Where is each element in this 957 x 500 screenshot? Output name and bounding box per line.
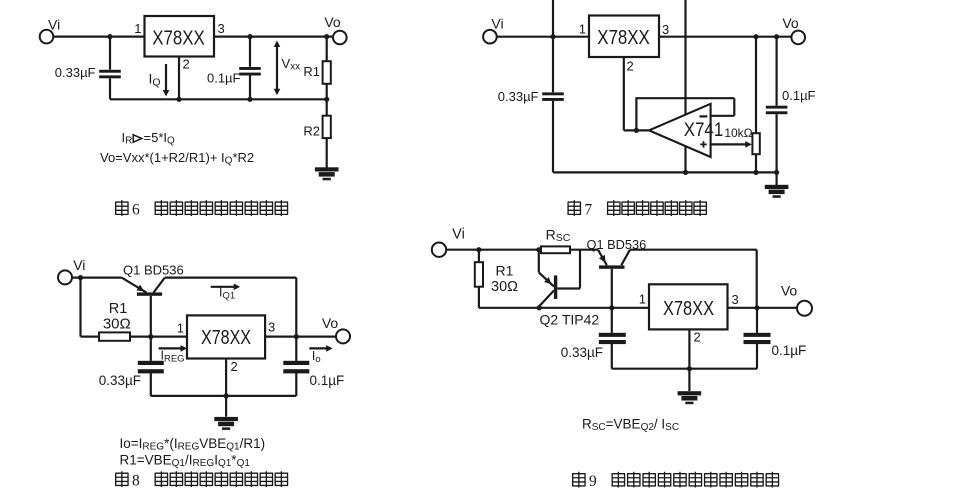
junction pin2/rail — [224, 393, 229, 398]
svg-text:2: 2 — [231, 359, 238, 374]
junction base/C5 — [148, 334, 153, 339]
wire Q1 collector to output bus — [165, 277, 296, 279]
wire C5 top lead — [150, 337, 152, 361]
feedback wire top — [636, 97, 734, 99]
junction pin2/rail — [687, 366, 692, 371]
wire C4 top lead — [775, 37, 777, 106]
junction input/C1 — [107, 34, 112, 39]
node Vi (fig7 input terminal) — [483, 30, 497, 44]
wire non-inverting input to pot wiper — [711, 143, 746, 145]
svg-text:3: 3 — [268, 320, 275, 335]
current arrow IQ1 — [211, 286, 235, 288]
wire Q1 collector to right bus — [630, 249, 757, 251]
svg-text:R2: R2 — [303, 124, 320, 139]
svg-text:Vi: Vi — [491, 16, 503, 32]
regulator U1 X78XX — [145, 16, 215, 57]
wire Vi to U2 pin1 — [497, 36, 589, 38]
wire right bus vertical — [756, 250, 758, 308]
wire rail to ground — [775, 172, 777, 185]
wire U1 pin2 to ground rail — [178, 57, 180, 100]
wire Vi to Q1 emitter — [72, 277, 122, 279]
svg-text:0.33µF: 0.33µF — [498, 89, 539, 104]
regulator U5 X78XX — [649, 284, 728, 329]
wire R1 to U4 pin1 — [130, 336, 187, 338]
wire C6 bottom lead — [295, 373, 297, 396]
svg-text:0.33µF: 0.33µF — [561, 345, 603, 360]
ground rail fig9 — [612, 368, 757, 370]
svg-text:1: 1 — [177, 321, 184, 336]
regulator U4 X78XX — [187, 315, 265, 358]
wire U5 pin3 to Vo — [728, 307, 798, 309]
resistor R2 — [323, 116, 331, 138]
svg-text:X78XX: X78XX — [597, 27, 650, 49]
svg-text:Vo: Vo — [324, 14, 341, 30]
wire output bus vertical — [295, 278, 297, 337]
svg-text:R1: R1 — [109, 301, 128, 317]
wire Q1 base down — [150, 296, 152, 337]
feedback wire right vertical — [733, 98, 735, 116]
transistor Q1 base bar fig9 — [599, 265, 625, 268]
wire C1 bottom lead — [109, 78, 111, 99]
junction right bus/output — [754, 305, 759, 310]
ground rail fig8 — [151, 395, 296, 397]
svg-text:2: 2 — [627, 59, 634, 74]
current arrow Io — [309, 347, 327, 349]
svg-text:0.33µF: 0.33µF — [55, 65, 96, 80]
svg-text:2: 2 — [694, 330, 701, 345]
wire pot top lead — [755, 37, 757, 134]
wire C8 top lead — [756, 308, 758, 333]
capacitor C8 0.1uF — [744, 333, 771, 337]
svg-text:1: 1 — [579, 22, 586, 37]
transistor Q1 emitter fig9 — [598, 250, 607, 266]
wire Q1 base down — [611, 269, 613, 308]
wire C7 bottom lead — [611, 344, 613, 369]
wire R1 top lead — [478, 250, 480, 263]
svg-text:3: 3 — [218, 21, 225, 36]
ground rail fig7 — [553, 171, 777, 173]
wire C1 top lead — [109, 37, 111, 70]
wire Vi to Rsc — [446, 249, 541, 251]
junction output bus/rail — [683, 170, 688, 175]
wire left to R1 — [81, 336, 100, 338]
svg-text:10kΩ: 10kΩ — [724, 126, 752, 140]
svg-text:Q2 TIP42: Q2 TIP42 — [540, 311, 600, 327]
transistor Q1 BD536 emitter — [122, 278, 147, 293]
junction output bus/output — [294, 334, 299, 339]
svg-text:X78XX: X78XX — [663, 297, 714, 320]
ground symbol fig8 — [214, 417, 238, 430]
junction output/C2 — [247, 34, 252, 39]
transistor Q2 base bar — [554, 275, 557, 299]
node Vi (fig8 input terminal) — [58, 270, 72, 284]
svg-text:9: 9 — [589, 473, 597, 490]
wire Vi to U1 pin1 — [53, 35, 144, 37]
junction pin2/rail — [176, 97, 181, 102]
svg-text:Vo: Vo — [782, 15, 799, 31]
junction output/C4 — [774, 34, 779, 39]
svg-text:30Ω: 30Ω — [103, 315, 131, 332]
wire pot bottom lead — [755, 154, 757, 172]
capacitor C1 0.33uF — [99, 70, 121, 73]
junction feedback/output — [634, 128, 639, 133]
svg-text:0.33µF: 0.33µF — [99, 373, 141, 388]
wire R1 bottom lead — [478, 287, 480, 308]
wire C4 bottom lead — [775, 114, 777, 172]
ground rail fig6 — [110, 98, 327, 100]
node Vi (fig6 input terminal) — [40, 30, 54, 44]
feedback wire vertical — [635, 97, 637, 130]
wire U4 pin3 to Vo — [265, 336, 336, 338]
resistor Rsc — [541, 246, 570, 253]
transistor Q1 collector — [154, 278, 165, 293]
capacitor C3 0.33uF — [542, 92, 564, 95]
junction R1/rail — [324, 97, 329, 102]
svg-text:30Ω: 30Ω — [491, 279, 518, 295]
junction Q2 collector/input wire — [537, 305, 542, 310]
svg-text:6: 6 — [132, 202, 140, 219]
caption fig7 — [568, 200, 581, 216]
potentiometer RP 10k — [752, 133, 759, 154]
ground symbol fig6 — [315, 167, 339, 180]
wire pin2 to op-amp output — [624, 129, 651, 131]
op-amp U3 X741 — [649, 104, 711, 157]
wire C2 top lead — [249, 37, 251, 67]
transistor Q2 emitter — [538, 250, 540, 273]
node Vo (fig8 output terminal) — [336, 329, 350, 343]
input wire to U5 pin1 — [539, 307, 649, 309]
junction Vi bus — [550, 34, 555, 39]
wire C7 top lead — [611, 308, 613, 333]
resistor R1 — [323, 61, 331, 84]
transistor Q2 collector — [539, 291, 554, 307]
caption fig6 — [115, 200, 128, 216]
svg-text:Q1 BD536: Q1 BD536 — [123, 263, 184, 278]
feedback wire into inverting input — [710, 115, 735, 117]
junction C4/rail — [774, 170, 779, 175]
svg-text:Vo: Vo — [781, 282, 798, 298]
svg-text:Vi: Vi — [73, 257, 85, 273]
transistor Q1 collector fig9 — [621, 250, 630, 266]
wire C8 bottom lead — [756, 344, 758, 369]
svg-text:Vo: Vo — [322, 315, 339, 331]
caption fig8 — [115, 471, 128, 487]
svg-text:2: 2 — [183, 57, 190, 72]
svg-text:X741: X741 — [684, 119, 724, 141]
capacitor C6 0.1uF — [283, 361, 309, 365]
wire C5 bottom lead — [150, 373, 152, 396]
svg-text:Vi: Vi — [452, 227, 465, 243]
non-inverting input mark — [703, 141, 705, 147]
wire U5 pin2 to ground — [688, 329, 690, 391]
capacitor C5 0.33uF — [138, 361, 164, 365]
junction pot/rail — [753, 170, 758, 175]
svg-text:R1: R1 — [496, 262, 514, 278]
junction Vi/R1 — [476, 247, 481, 252]
wire U4 pin2 to ground — [225, 359, 227, 417]
svg-text:Vi: Vi — [48, 17, 60, 33]
svg-text:R1=VBEQ1/IREGIQ1*Q1: R1=VBEQ1/IREGIQ1*Q1 — [120, 452, 251, 469]
svg-text:3: 3 — [662, 22, 669, 37]
svg-text:1: 1 — [134, 21, 141, 36]
svg-text:0.1µF: 0.1µF — [772, 343, 807, 358]
current arrow IQ — [165, 64, 167, 90]
junction pot/output wire — [753, 34, 758, 39]
caption fig9 — [572, 472, 585, 488]
transistor Q1 base bar — [137, 292, 162, 295]
node Vo (fig9 output terminal) — [797, 301, 812, 316]
junction output/R1 — [324, 34, 329, 39]
node Vi (fig9 input terminal) — [432, 243, 446, 257]
wire R2 to ground — [326, 138, 328, 167]
measurement arrow Vxx — [276, 44, 278, 93]
regulator U2 X78XX — [589, 16, 659, 58]
wire U2 pin2 down — [623, 57, 625, 130]
node Vo (fig7 output terminal) — [791, 31, 805, 45]
svg-text:R1: R1 — [303, 64, 320, 79]
svg-text:8: 8 — [132, 473, 140, 490]
wire Rsc to Q1 emitter — [570, 249, 598, 251]
svg-text:1: 1 — [639, 292, 646, 307]
current arrow IREG — [159, 347, 182, 349]
capacitor C4 0.1uF — [766, 106, 788, 109]
input bus vertical line (cut at top) — [552, 0, 554, 92]
wire U2 pin3 to Vo — [659, 36, 791, 38]
resistor R1 fig8 — [99, 332, 130, 340]
junction base/C7 — [609, 305, 614, 310]
ground symbol fig7 — [765, 185, 789, 198]
wire U1 pin3 to Vo — [214, 35, 333, 37]
junction C2/rail — [247, 97, 252, 102]
resistor R1 fig9 — [475, 262, 483, 287]
capacitor C2 0.1uF — [239, 67, 261, 70]
svg-text:X78XX: X78XX — [201, 327, 251, 349]
wire C2 bottom lead — [249, 76, 251, 100]
capacitor C7 0.33uF — [599, 333, 626, 337]
node Vo (fig6 output terminal) — [333, 31, 347, 45]
svg-text:7: 7 — [584, 202, 592, 219]
wire C6 top lead — [295, 337, 297, 361]
ground symbol fig9 — [678, 391, 702, 404]
svg-text:0.1µF: 0.1µF — [782, 88, 816, 103]
svg-text:0.1µF: 0.1µF — [207, 71, 241, 86]
svg-text:3: 3 — [732, 292, 739, 307]
svg-text:0.1µF: 0.1µF — [310, 373, 345, 388]
wire R1 top lead — [326, 37, 328, 62]
junction Vi/R1 — [78, 275, 83, 280]
svg-text:X78XX: X78XX — [152, 27, 205, 49]
wire R1 left lead vertical — [79, 278, 81, 337]
wire Q2 base — [557, 287, 580, 289]
wire R1 to R2 — [326, 84, 328, 116]
inverting input mark — [700, 115, 708, 117]
junction Rsc/Q2 emitter — [536, 247, 541, 252]
output bus vertical line (cut at top, behind op-amp) — [684, 0, 686, 172]
